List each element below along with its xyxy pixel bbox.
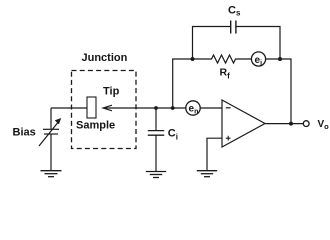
op-amp plus sign (226, 136, 231, 141)
wire Ci branch (155, 108, 157, 130)
ground (bias) (41, 171, 62, 177)
capacitor Cs (231, 21, 236, 34)
node feedback tap (171, 106, 175, 110)
noise source en (186, 101, 200, 115)
noise source ei (251, 52, 265, 66)
op-amp minus sign (226, 107, 231, 109)
wire Cs loop right (236, 27, 280, 60)
node Ci tap (154, 106, 158, 110)
ground (op-amp) (197, 171, 217, 177)
wire bias-to-sample (51, 107, 87, 109)
ground (Ci) (146, 172, 166, 178)
node output (289, 122, 293, 126)
wire Ci-to-ground (155, 135, 157, 171)
tip arrow (103, 105, 112, 111)
svg-text:Ci: Ci (168, 128, 178, 142)
resistor Rf (193, 55, 252, 63)
wire output (265, 123, 303, 125)
wire en-to-opamp (200, 107, 222, 109)
node Rf left (191, 57, 195, 61)
svg-text:Rf: Rf (220, 67, 231, 81)
svg-text:Cs: Cs (228, 5, 241, 18)
wire bias branch (50, 108, 52, 129)
svg-text:ei: ei (255, 55, 263, 67)
junction dashed box (72, 71, 137, 149)
node Rf right (278, 57, 282, 61)
svg-text:Bias: Bias (13, 127, 36, 139)
wire plus input (207, 138, 222, 170)
op-amp U1 (222, 100, 265, 147)
wire bias-to-ground (50, 134, 52, 171)
wire feedback tap up (173, 59, 193, 108)
svg-text:Vo: Vo (318, 119, 330, 131)
capacitor Ci (148, 131, 164, 136)
svg-text:en: en (189, 103, 199, 115)
svg-text:Tip: Tip (103, 86, 120, 98)
wire ei-to-output (266, 59, 291, 124)
svg-text:Sample: Sample (76, 120, 115, 132)
wire Cs loop left (193, 27, 231, 60)
bias variable capacitor (39, 119, 61, 147)
wire tip-to-enoise (104, 107, 187, 109)
svg-text:Junction: Junction (82, 52, 128, 64)
sample electrode (87, 97, 96, 118)
terminal vo (303, 121, 309, 127)
